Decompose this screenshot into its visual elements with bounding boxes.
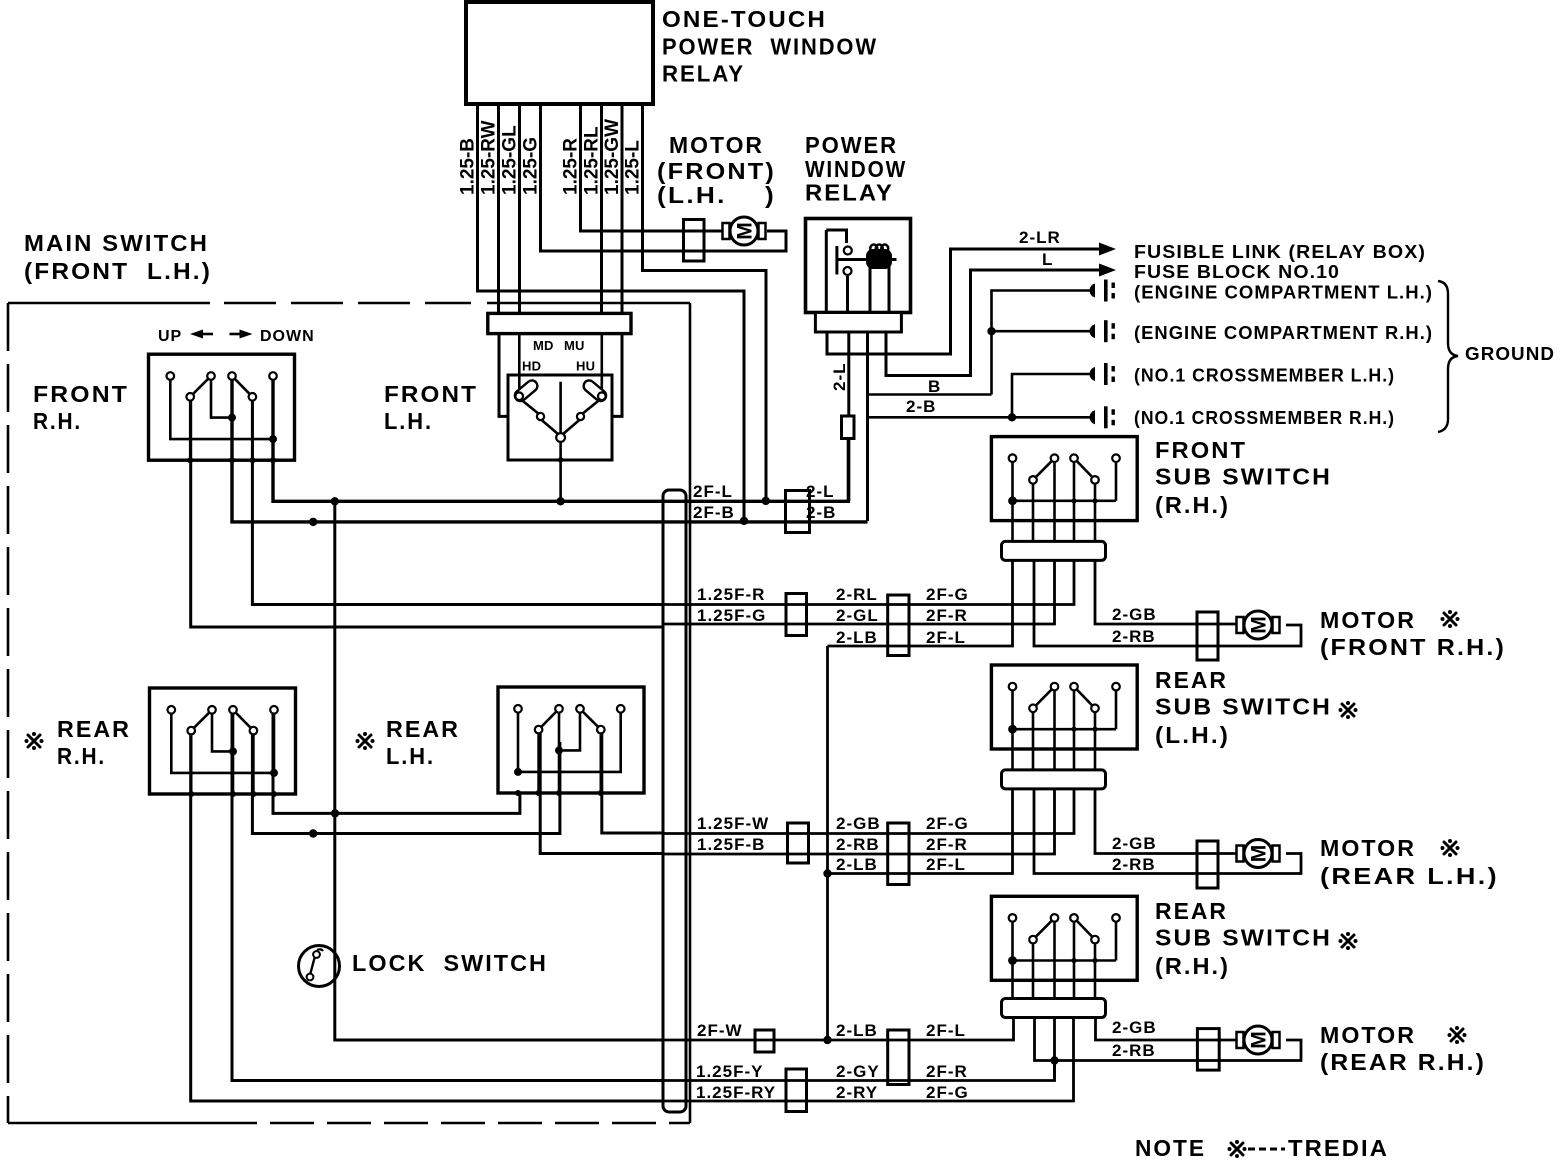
- wire L to fuse block: [886, 270, 1100, 376]
- main switch enclosure (dashed box): [8, 302, 210, 305]
- svg-text:FUSIBLE LINK (RELAY BOX): FUSIBLE LINK (RELAY BOX): [1134, 242, 1426, 262]
- svg-text:(ENGINE COMPARTMENT R.H.): (ENGINE COMPARTMENT R.H.): [1134, 323, 1433, 343]
- svg-text:2-B: 2-B: [806, 503, 836, 522]
- sub switch terminals: [1009, 454, 1017, 462]
- svg-text:RELAY: RELAY: [805, 180, 894, 206]
- svg-text:2-RB: 2-RB: [1112, 627, 1156, 646]
- switch internal wires: [171, 713, 274, 773]
- front L.H. switch body box: [508, 375, 612, 460]
- wire 2-LB / 2F-L line (front): [828, 561, 1013, 646]
- svg-text:2-L: 2-L: [830, 363, 849, 392]
- sub switch junction dot: [1008, 956, 1017, 965]
- svg-text:(REAR R.H.): (REAR R.H.): [1320, 1049, 1486, 1075]
- wire 1.25-L: [643, 104, 767, 499]
- svg-text:(REAR L.H.): (REAR L.H.): [1320, 863, 1499, 889]
- svg-text:FRONT: FRONT: [33, 381, 129, 407]
- relay internal contact wire: [826, 230, 846, 243]
- svg-text:1.25F-B: 1.25F-B: [697, 835, 765, 854]
- wire 2-L with fuse link: [847, 331, 850, 501]
- svg-text:2F-R: 2F-R: [926, 835, 968, 854]
- junction lock switch wire on 2F-L: [331, 497, 339, 505]
- switch blade contacts: [191, 710, 212, 731]
- svg-text:M: M: [734, 222, 757, 240]
- sub switch box: [991, 896, 1137, 980]
- wire exit dots on box border: [188, 791, 194, 797]
- svg-text:SUB SWITCH: SUB SWITCH: [1155, 925, 1332, 951]
- svg-text:1.25-GL: 1.25-GL: [500, 125, 521, 195]
- svg-text:TREDIA: TREDIA: [1288, 1135, 1389, 1161]
- wire 2-RB to motor front R.H.: [1034, 561, 1301, 646]
- svg-text:FUSE BLOCK NO.10: FUSE BLOCK NO.10: [1134, 262, 1340, 282]
- svg-text:2-LR: 2-LR: [1019, 228, 1061, 247]
- wire 2-RB to motor rear L.H.: [1034, 790, 1301, 874]
- svg-text:2F-G: 2F-G: [926, 814, 969, 833]
- motor M2 front R.H.: [1237, 611, 1280, 639]
- svg-text:R.H.: R.H.: [33, 408, 82, 434]
- svg-text:REAR: REAR: [386, 716, 460, 742]
- label REAR R.H. with reference mark: [25, 732, 44, 750]
- front L.H. common wire: [559, 382, 562, 433]
- wire ground riser to engine compartment grounds: [992, 291, 1095, 395]
- svg-text:MOTOR: MOTOR: [1320, 1022, 1416, 1048]
- wire 2-GB to motor rear R.H.: [1096, 1019, 1241, 1040]
- svg-text:2-GB: 2-GB: [1112, 605, 1157, 624]
- svg-text:1.25-B: 1.25-B: [458, 138, 479, 195]
- svg-text:M: M: [1248, 845, 1271, 863]
- svg-text:2F-R: 2F-R: [926, 1062, 968, 1081]
- switch box: [150, 688, 296, 794]
- svg-text:(L.H. ): (L.H. ): [657, 182, 776, 208]
- wire rear L.H. c-left to 1.25F-W: [602, 733, 663, 833]
- sub switch box: [991, 665, 1137, 749]
- sub switch internal wires: [1013, 921, 1117, 961]
- lock switch: [299, 946, 340, 987]
- svg-text:1.25F-G: 1.25F-G: [697, 606, 766, 625]
- wire 1.25-R: [581, 104, 727, 231]
- svg-text:(NO.1 CROSSMEMBER L.H.): (NO.1 CROSSMEMBER L.H.): [1134, 366, 1395, 386]
- svg-text:M: M: [1248, 616, 1271, 634]
- svg-text:(L.H.): (L.H.): [1155, 722, 1230, 748]
- junction front L.H. common on 2F-L: [556, 497, 564, 505]
- svg-text:2-B: 2-B: [906, 397, 936, 416]
- wire exit dots on box border: [187, 457, 193, 463]
- wire 1.25F-RY / 2-RY / 2F-G line: [191, 1019, 1074, 1101]
- connector J3 (1.25F-R/1.25F-G lines): [786, 594, 807, 636]
- svg-text:M: M: [1248, 1031, 1271, 1049]
- svg-text:1.25-L: 1.25-L: [623, 140, 644, 195]
- wire crossmember L.H. riser: [1012, 374, 1094, 417]
- switch blade contacts: [580, 709, 601, 730]
- svg-text:1.25F-Y: 1.25F-Y: [696, 1062, 763, 1081]
- svg-text:2F-G: 2F-G: [926, 1083, 969, 1102]
- wire 2-B to crossmember grounds: [868, 416, 1095, 419]
- svg-text:2-RB: 2-RB: [1112, 1041, 1156, 1060]
- wire 2F-R drop to junction: [1053, 1019, 1056, 1081]
- junction lock wire on t-link: [331, 809, 339, 817]
- junction on ground riser: [987, 327, 995, 335]
- svg-text:2F-B: 2F-B: [693, 503, 735, 522]
- relay connector bar: [815, 313, 901, 333]
- wire lock switch riser: [335, 501, 663, 1040]
- svg-text:L: L: [1042, 250, 1053, 269]
- ground brace: [1438, 281, 1458, 432]
- svg-text:WINDOW: WINDOW: [805, 156, 907, 182]
- svg-text:POWER WINDOW: POWER WINDOW: [662, 34, 878, 60]
- junction 1.25-L to 2-L: [762, 497, 770, 505]
- front L.H. contact wires: [518, 334, 521, 392]
- switch internal wires: [518, 712, 621, 772]
- svg-text:(NO.1 CROSSMEMBER R.H.): (NO.1 CROSSMEMBER R.H.): [1134, 408, 1395, 428]
- connector J11 (motor rear L.H.): [1197, 841, 1218, 888]
- switch terminals: [617, 705, 625, 713]
- switch box: [149, 354, 295, 460]
- svg-text:SUB SWITCH: SUB SWITCH: [1155, 464, 1332, 490]
- fuse F1 on 2-L: [842, 416, 855, 439]
- switch junction dots: [514, 768, 522, 776]
- connector J13 (motor front L.H.): [684, 220, 705, 262]
- sub switch blades: [1033, 458, 1055, 480]
- connector J5 (1.25F-W/1.25F-B lines): [788, 823, 809, 863]
- svg-text:2-GB: 2-GB: [1112, 1018, 1157, 1037]
- svg-text:MOTOR: MOTOR: [1320, 835, 1416, 861]
- svg-text:GROUND: GROUND: [1465, 344, 1555, 364]
- wire 2F-W / 2-LB / 2F-L line: [335, 1019, 1014, 1040]
- switch terminals: [168, 706, 176, 714]
- sub switch connector bar: [1002, 770, 1106, 789]
- relay coil: [866, 249, 892, 269]
- svg-text:UP: UP: [158, 328, 182, 345]
- sub switch terminals: [1009, 683, 1017, 691]
- svg-text:FRONT: FRONT: [1155, 437, 1247, 463]
- switch blade contacts: [190, 376, 211, 397]
- svg-text:2-RY: 2-RY: [836, 1083, 878, 1102]
- relay contact bar: [835, 246, 838, 275]
- svg-text:HU: HU: [576, 359, 595, 374]
- wire front R.H. c-left to 1.25F-G: [191, 400, 663, 627]
- svg-text:HD: HD: [522, 359, 541, 374]
- svg-text:MOTOR: MOTOR: [669, 132, 764, 158]
- wire 1.25-B: [478, 104, 745, 519]
- front L.H. pivot terminals: [515, 392, 523, 400]
- svg-text:(FRONT): (FRONT): [657, 158, 776, 184]
- wire rear R.H. t4 to rear L.H. t-link: [273, 713, 520, 813]
- svg-text:2F-G: 2F-G: [926, 585, 969, 604]
- relay contact points: [844, 247, 852, 255]
- svg-text:(ENGINE COMPARTMENT L.H.): (ENGINE COMPARTMENT L.H.): [1134, 283, 1433, 303]
- switch junction dots: [269, 435, 277, 443]
- wire rear L.H. c-right to 1.25F-B: [540, 733, 663, 854]
- svg-text:1.25-GW: 1.25-GW: [602, 119, 623, 195]
- switch terminals: [167, 372, 175, 380]
- wire 2F-L / 2-L trunk: [273, 380, 848, 502]
- sub switch connector bar: [1002, 541, 1106, 560]
- svg-text:2F-L: 2F-L: [926, 1021, 966, 1040]
- svg-text:2F-L: 2F-L: [693, 482, 733, 501]
- wire 1.25-G: [541, 104, 787, 251]
- svg-text:1.25-RW: 1.25-RW: [479, 120, 500, 195]
- junction 2-LB on rear L.H. band: [823, 869, 831, 877]
- wire 2-GB / 2F-G line (rear L.H.): [663, 790, 1074, 834]
- wire engine compartment R.H. ground: [992, 330, 1095, 333]
- svg-text:2-LB: 2-LB: [836, 855, 878, 874]
- svg-text:REAR: REAR: [1155, 898, 1228, 924]
- wire rear R.H. w3 to 1.25F-Y: [232, 713, 663, 1081]
- wire 2-LB riser: [826, 646, 829, 1040]
- junction 2F-B feed on c-right link: [309, 829, 317, 837]
- label REAR L.H. with reference mark: [356, 732, 375, 750]
- wire B branch: [866, 331, 869, 521]
- switch internal wires: [170, 379, 273, 439]
- sub switch terminals: [1009, 914, 1017, 922]
- connector J8 (1.25F-Y/1.25F-RY lines): [786, 1069, 807, 1112]
- sub switch box: [991, 437, 1137, 521]
- wire front R.H. c-right to 1.25F-R: [252, 400, 663, 605]
- wire 2-LR to fusible link: [827, 249, 1100, 354]
- svg-text:2-LB: 2-LB: [836, 628, 878, 647]
- svg-text:R.H.: R.H.: [57, 743, 106, 769]
- svg-text:(R.H.): (R.H.): [1155, 953, 1230, 979]
- junction crossmember branch: [1008, 413, 1016, 421]
- wire 1.25-GW: [621, 104, 624, 314]
- front L.H. right rocker capsule: [581, 378, 608, 403]
- one-touch power window relay box: [466, 2, 653, 104]
- svg-text:1.25-RL: 1.25-RL: [582, 126, 603, 195]
- svg-text:MD: MD: [533, 338, 554, 353]
- wire 1.25-GL: [518, 104, 521, 314]
- connector J2 (2-L/2-B to relay): [786, 491, 810, 533]
- sub switch junction dot: [1008, 496, 1017, 505]
- svg-text:1.25-G: 1.25-G: [521, 137, 542, 195]
- wire exit dots on box border: [598, 790, 604, 796]
- ground engine compartment R.H.: [1089, 320, 1114, 342]
- wire 2F-L line (rear L.H.): [828, 790, 1013, 874]
- svg-text:LOCK SWITCH: LOCK SWITCH: [352, 950, 548, 976]
- wire 1.25-RW: [497, 104, 500, 314]
- wire 1.25F-Y / 2-GY / 2F-R line: [232, 1061, 1055, 1081]
- wire 2-GB to motor front R.H.: [1095, 561, 1240, 624]
- wire 2-RB to motor rear R.H.: [1035, 1019, 1302, 1061]
- sub switch internal wires: [1013, 690, 1117, 730]
- connector J12 (motor rear R.H.): [1197, 1029, 1219, 1071]
- connector J6 (rear L.H. harness): [888, 823, 909, 885]
- connector J7 (2F-W line): [755, 1030, 774, 1052]
- svg-text:1.25F-R: 1.25F-R: [697, 585, 765, 604]
- svg-text:2F-L: 2F-L: [926, 855, 966, 874]
- wire 2-GL / 2F-R line: [663, 561, 1055, 624]
- svg-text:2-RB: 2-RB: [1112, 855, 1156, 874]
- svg-text:2-GY: 2-GY: [836, 1062, 880, 1081]
- svg-text:NOTE: NOTE: [1135, 1135, 1206, 1161]
- sub switch blades: [1033, 918, 1055, 940]
- svg-text:2F-W: 2F-W: [697, 1021, 743, 1040]
- junction 1.25-B to 2-B: [740, 517, 748, 525]
- svg-text:POWER: POWER: [805, 132, 898, 158]
- relay coil feed: [837, 258, 897, 261]
- svg-text:REAR: REAR: [1155, 667, 1228, 693]
- svg-text:L.H.: L.H.: [386, 743, 435, 769]
- switch FRONT L.H. connector bar (cover): [488, 313, 631, 333]
- svg-text:2-L: 2-L: [806, 482, 835, 501]
- svg-text:ONE-TOUCH: ONE-TOUCH: [662, 6, 827, 32]
- svg-text:2-RL: 2-RL: [836, 585, 878, 604]
- svg-text:B: B: [928, 377, 941, 396]
- front L.H. outer frame: [499, 334, 508, 417]
- ground engine compartment L.H.: [1089, 280, 1114, 302]
- svg-text:(R.H.): (R.H.): [1155, 492, 1230, 518]
- svg-text:1.25F-RY: 1.25F-RY: [696, 1083, 776, 1102]
- svg-text:2-RB: 2-RB: [836, 835, 880, 854]
- motor M4 rear R.H.: [1237, 1026, 1280, 1054]
- svg-text:2-GB: 2-GB: [836, 814, 881, 833]
- ground crossmember R.H.: [1089, 406, 1114, 428]
- svg-text:MOTOR: MOTOR: [1320, 607, 1416, 633]
- sub switch blades: [1033, 687, 1055, 709]
- svg-text:2-GB: 2-GB: [1112, 834, 1157, 853]
- switch box: [498, 687, 644, 793]
- wire rear R.H. c-right link: [252, 734, 560, 834]
- svg-text:(FRONT R.H.): (FRONT R.H.): [1320, 634, 1506, 660]
- wire 2-GB to motor rear L.H.: [1095, 790, 1240, 854]
- svg-text:2F-L: 2F-L: [926, 628, 966, 647]
- motor M1 front L.H.: [723, 217, 766, 245]
- svg-text:2F-R: 2F-R: [926, 606, 968, 625]
- junction 2-LB at 2F-W: [823, 1036, 831, 1044]
- svg-text:FRONT: FRONT: [384, 381, 478, 407]
- sub switch connector bar: [1002, 999, 1106, 1018]
- main switch enclosure right border: [689, 303, 692, 1123]
- connector J-main (tall vertical junction strip): [663, 490, 686, 1112]
- sub switch junction dot: [1008, 725, 1017, 734]
- motor M3 rear L.H.: [1237, 840, 1280, 868]
- switch junction dots: [270, 769, 278, 777]
- svg-text:MAIN SWITCH: MAIN SWITCH: [24, 230, 209, 256]
- power window relay box: [806, 219, 911, 313]
- wire 2-RB / 2F-R line (rear L.H.): [663, 790, 1055, 854]
- svg-text:2-GL: 2-GL: [836, 606, 879, 625]
- dot where common crosses body box: [558, 457, 564, 463]
- front L.H. left rocker capsule: [513, 378, 540, 403]
- svg-text:2-LB: 2-LB: [836, 1021, 878, 1040]
- connector J9 (rear R.H. harness): [888, 1030, 909, 1085]
- svg-text:REAR: REAR: [57, 716, 131, 742]
- svg-text:1.25F-W: 1.25F-W: [697, 814, 769, 833]
- svg-text:L.H.: L.H.: [384, 408, 433, 434]
- front L.H. blades to throws: [521, 400, 540, 415]
- svg-text:(FRONT L.H.): (FRONT L.H.): [24, 258, 212, 284]
- svg-text:SUB SWITCH: SUB SWITCH: [1155, 694, 1332, 720]
- wire 2F-B / 2-B trunk: [232, 380, 868, 522]
- svg-text:DOWN: DOWN: [260, 328, 315, 345]
- ground crossmember L.H.: [1089, 363, 1114, 385]
- connector J10 (motor front R.H.): [1197, 612, 1218, 660]
- connector J4 (front door harness): [888, 595, 909, 656]
- wire 2-RL / 2F-G line: [663, 561, 1074, 605]
- svg-text:MU: MU: [564, 338, 585, 353]
- junction 2-RB rear R.H.: [1050, 1056, 1058, 1064]
- wire rear R.H. c-left to 1.25F-RY: [191, 734, 663, 1101]
- svg-text:1.25-R: 1.25-R: [561, 138, 582, 195]
- svg-text:RELAY: RELAY: [662, 61, 745, 87]
- junction rear feed on 2F-B: [309, 518, 317, 526]
- sub switch internal wires: [1013, 461, 1117, 501]
- wire 1.25-RL: [600, 104, 603, 314]
